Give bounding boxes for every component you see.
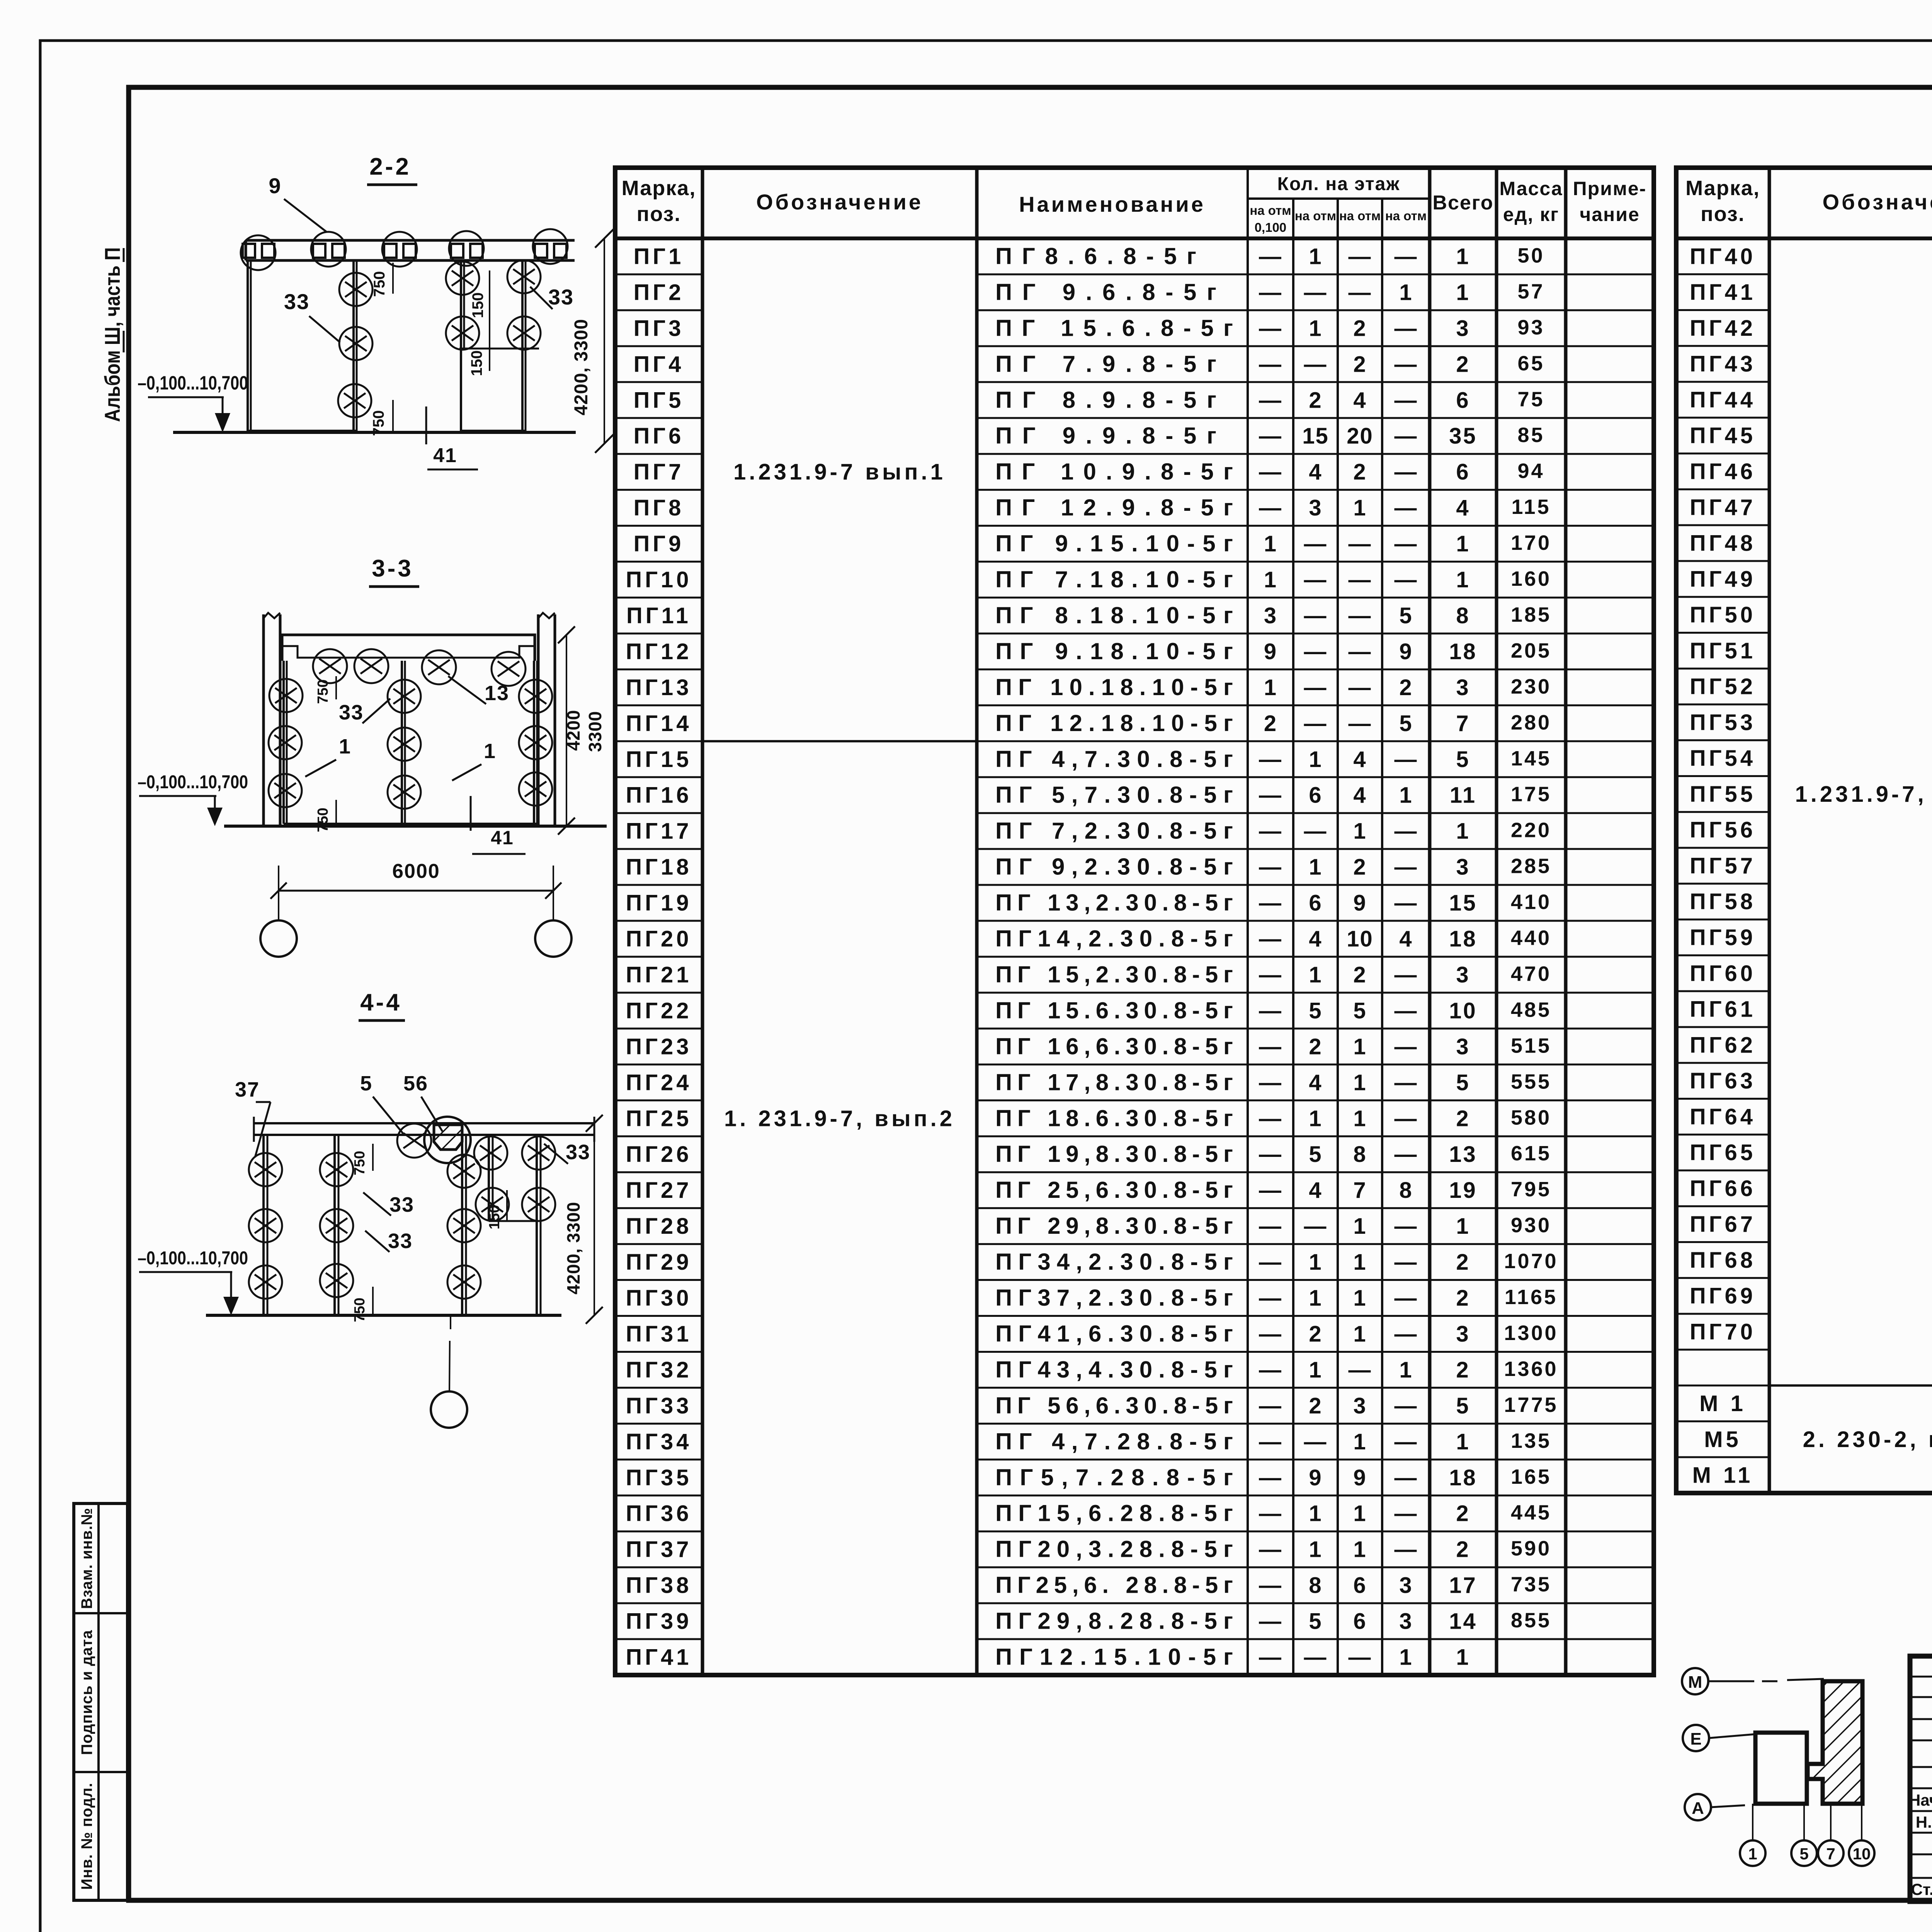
svg-text:ПГ66: ПГ66 [1690,1176,1756,1201]
svg-text:—: — [1395,1250,1418,1275]
svg-text:—: — [1259,1429,1282,1454]
svg-text:3: 3 [1264,603,1277,628]
svg-text:750: 750 [370,410,387,436]
svg-text:ПГ42: ПГ42 [1690,316,1756,341]
svg-text:4: 4 [1456,495,1470,520]
svg-text:1: 1 [1353,1214,1366,1239]
svg-text:ПГ39: ПГ39 [626,1609,692,1634]
svg-text:4: 4 [1309,459,1322,485]
svg-text:ПГ 4,7.30.8-5г: ПГ 4,7.30.8-5г [995,746,1233,772]
svg-text:Инв. № подл.: Инв. № подл. [78,1782,95,1889]
svg-text:—: — [1349,280,1372,305]
svg-text:ПГ5: ПГ5 [634,388,684,413]
svg-text:ПГ54: ПГ54 [1690,746,1756,771]
svg-text:ПГ41: ПГ41 [1690,280,1756,305]
svg-text:М: М [1688,1673,1702,1692]
svg-text:ПГ67: ПГ67 [1690,1212,1756,1237]
svg-text:ПГ62: ПГ62 [1690,1032,1756,1058]
svg-text:ПГ29,8.28.8-5г: ПГ29,8.28.8-5г [995,1608,1233,1634]
svg-text:—: — [1304,280,1327,305]
svg-text:чание: чание [1580,204,1640,225]
svg-text:—: — [1349,711,1372,736]
svg-text:230: 230 [1511,675,1551,698]
svg-text:1: 1 [1264,675,1277,700]
svg-text:М 1: М 1 [1699,1391,1746,1416]
svg-text:М5: М5 [1704,1427,1742,1452]
svg-text:1: 1 [1456,244,1470,269]
svg-text:Масса: Масса [1499,178,1563,199]
svg-text:3: 3 [1309,495,1322,520]
svg-text:2: 2 [1309,1034,1322,1059]
svg-text:ПГ9: ПГ9 [634,531,684,556]
svg-text:ПГ 8.9.8-5г: ПГ 8.9.8-5г [995,387,1216,413]
svg-text:—: — [1395,1321,1418,1347]
svg-text:1: 1 [1264,567,1277,592]
svg-text:—: — [1395,819,1418,844]
svg-text:160: 160 [1511,567,1551,590]
svg-text:13: 13 [1449,1142,1477,1167]
svg-text:185: 185 [1511,603,1551,626]
svg-text:485: 485 [1511,998,1551,1021]
svg-text:—: — [1395,423,1418,449]
svg-text:150: 150 [469,293,486,318]
svg-text:ПГ24: ПГ24 [626,1070,692,1095]
svg-text:5: 5 [1399,603,1412,628]
svg-text:4: 4 [1353,747,1366,772]
svg-text:615: 615 [1511,1142,1551,1165]
svg-text:—: — [1349,531,1372,556]
svg-text:1: 1 [1353,1070,1366,1095]
svg-text:—: — [1304,1429,1327,1454]
svg-text:—: — [1395,1429,1418,1454]
svg-text:2: 2 [1456,1286,1470,1311]
svg-text:—: — [1259,1070,1282,1095]
svg-text:ПГ55: ПГ55 [1690,782,1756,807]
svg-text:—: — [1349,1357,1372,1383]
svg-text:ПГ44: ПГ44 [1690,387,1756,412]
svg-text:ПГ 18.6.30.8-5г: ПГ 18.6.30.8-5г [995,1105,1233,1131]
svg-text:ПГ56: ПГ56 [1690,818,1756,843]
svg-text:1: 1 [1309,1250,1322,1275]
svg-text:—: — [1259,1609,1282,1634]
svg-text:2-2: 2-2 [369,153,411,180]
svg-text:ПГ14,2.30.8-5г: ПГ14,2.30.8-5г [995,926,1233,952]
svg-text:—: — [1304,711,1327,736]
svg-text:—: — [1259,280,1282,305]
svg-text:—: — [1349,603,1372,628]
left table rows [615,273,702,275]
svg-text:—: — [1259,1250,1282,1275]
svg-text:17: 17 [1449,1573,1477,1598]
svg-text:—: — [1395,891,1418,916]
svg-text:ПГ12.15.10-5г: ПГ12.15.10-5г [995,1644,1233,1670]
svg-text:ПГ 7,2.30.8-5г: ПГ 7,2.30.8-5г [995,818,1233,844]
svg-text:—: — [1259,459,1282,485]
svg-text:ПГ 25,6.30.8-5г: ПГ 25,6.30.8-5г [995,1177,1233,1203]
svg-text:93: 93 [1517,316,1544,339]
svg-text:285: 285 [1511,855,1551,878]
svg-text:—: — [1395,1034,1418,1059]
svg-text:4: 4 [1309,1070,1322,1095]
svg-text:ПГ11: ПГ11 [626,603,691,628]
svg-text:ед, кг: ед, кг [1503,204,1559,225]
svg-text:1775: 1775 [1504,1393,1558,1417]
svg-text:ПГ25: ПГ25 [626,1106,692,1131]
svg-text:515: 515 [1511,1034,1551,1057]
svg-text:на отм: на отм [1295,209,1336,223]
svg-text:—: — [1395,1142,1418,1167]
svg-text:440: 440 [1511,927,1551,950]
svg-text:ПГ 17,8.30.8-5г: ПГ 17,8.30.8-5г [995,1069,1233,1095]
svg-text:–0,100...10,700: –0,100...10,700 [138,772,248,793]
svg-text:Приме-: Приме- [1573,178,1647,199]
svg-text:580: 580 [1511,1106,1551,1129]
svg-text:ПГ22: ПГ22 [626,998,692,1023]
svg-text:ПГ18: ПГ18 [626,855,692,880]
right table outer [1676,168,1932,1493]
svg-text:—: — [1259,998,1282,1023]
svg-text:9: 9 [1353,891,1366,916]
svg-text:3: 3 [1456,1034,1470,1059]
svg-text:—: — [1259,855,1282,880]
svg-text:33: 33 [566,1141,590,1164]
svg-text:—: — [1395,567,1418,592]
svg-text:8: 8 [1353,1142,1366,1167]
svg-text:1360: 1360 [1504,1357,1558,1381]
svg-text:145: 145 [1511,747,1551,770]
svg-text:15: 15 [1302,423,1329,449]
svg-text:1: 1 [1353,819,1366,844]
svg-text:—: — [1395,1393,1418,1418]
svg-text:1: 1 [1309,316,1322,341]
svg-text:—: — [1259,783,1282,808]
svg-text:на отм: на отм [1385,209,1427,223]
svg-text:5: 5 [1456,1393,1470,1418]
svg-text:1: 1 [1309,244,1322,269]
svg-text:1: 1 [1399,1357,1412,1383]
svg-text:3-3: 3-3 [372,555,413,582]
svg-text:4: 4 [1353,388,1366,413]
svg-text:4200: 4200 [563,710,583,751]
svg-text:ПГ20: ПГ20 [626,927,692,952]
svg-text:5: 5 [1353,998,1366,1023]
svg-text:ПГ23: ПГ23 [626,1034,692,1059]
svg-text:ПГ8.6.8-5г: ПГ8.6.8-5г [995,243,1196,269]
svg-text:2: 2 [1456,1106,1470,1131]
svg-text:1: 1 [1353,1286,1366,1311]
svg-text:—: — [1259,1465,1282,1490]
svg-text:7: 7 [1826,1845,1835,1863]
svg-text:33: 33 [339,701,364,724]
svg-text:ПГ 15.6.8-5г: ПГ 15.6.8-5г [995,315,1233,341]
svg-text:75: 75 [1517,388,1544,411]
svg-text:ПГ21: ПГ21 [626,962,692,987]
svg-text:1: 1 [484,740,496,763]
svg-text:ПГ59: ПГ59 [1690,925,1756,950]
svg-text:–0,100...10,700: –0,100...10,700 [138,1248,248,1269]
svg-text:135: 135 [1511,1429,1551,1452]
svg-text:6: 6 [1353,1609,1366,1634]
svg-text:5: 5 [1399,711,1412,736]
svg-text:7: 7 [1456,711,1470,736]
svg-text:3300: 3300 [585,711,605,752]
svg-text:5: 5 [1309,1142,1322,1167]
svg-text:Марка,: Марка, [622,177,696,200]
svg-text:ПГ2: ПГ2 [634,280,684,305]
svg-text:ПГ4: ПГ4 [634,352,684,377]
svg-text:ПГ38: ПГ38 [626,1573,692,1598]
svg-text:2: 2 [1353,352,1366,377]
svg-text:33: 33 [548,285,574,309]
svg-text:1: 1 [1456,1214,1470,1239]
svg-text:4200, 3300: 4200, 3300 [571,319,592,415]
svg-text:94: 94 [1517,459,1544,483]
svg-text:ПГ51: ПГ51 [1690,638,1756,663]
svg-text:—: — [1349,639,1372,664]
svg-text:1: 1 [1309,747,1322,772]
svg-text:6: 6 [1456,388,1470,413]
svg-text:ПГ43: ПГ43 [1690,352,1756,377]
right table rows [1676,273,1769,275]
svg-text:735: 735 [1511,1573,1551,1596]
svg-text:ПГ 9,2.30.8-5г: ПГ 9,2.30.8-5г [995,854,1233,880]
svg-text:1.231.9-7, вып.2: 1.231.9-7, вып.2 [1795,782,1932,807]
svg-text:19: 19 [1449,1178,1477,1203]
svg-text:1070: 1070 [1504,1250,1558,1273]
svg-text:6: 6 [1309,891,1322,916]
svg-text:—: — [1395,244,1418,269]
svg-text:ПГ29: ПГ29 [626,1250,692,1275]
svg-text:—: — [1259,1501,1282,1526]
svg-text:—: — [1259,244,1282,269]
svg-text:ПГ61: ПГ61 [1690,997,1756,1022]
svg-text:1300: 1300 [1504,1321,1558,1345]
svg-text:1165: 1165 [1505,1286,1558,1309]
svg-text:750: 750 [352,1151,368,1175]
svg-text:4: 4 [1309,1178,1322,1203]
svg-text:470: 470 [1511,962,1551,985]
svg-text:—: — [1349,1645,1372,1670]
svg-text:—: — [1395,747,1418,772]
svg-text:—: — [1259,1321,1282,1347]
svg-text:1: 1 [1399,783,1412,808]
svg-text:ПГ 7.9.8-5г: ПГ 7.9.8-5г [995,351,1216,377]
svg-text:1: 1 [1353,1106,1366,1131]
left table outer [615,168,1654,1675]
svg-text:ПГ35: ПГ35 [626,1465,692,1490]
svg-text:—: — [1304,1214,1327,1239]
svg-text:ПГ12: ПГ12 [626,639,692,664]
svg-text:—: — [1304,352,1327,377]
svg-text:1: 1 [1353,1537,1366,1562]
svg-text:ПГ 10.18.10-5г: ПГ 10.18.10-5г [995,674,1233,700]
svg-text:—: — [1395,1214,1418,1239]
svg-text:1. 231.9-7, вып.2: 1. 231.9-7, вып.2 [724,1106,955,1131]
svg-text:ПГ30: ПГ30 [626,1286,692,1311]
svg-text:ПГ53: ПГ53 [1690,710,1756,735]
svg-text:ПГ43,4.30.8-5г: ПГ43,4.30.8-5г [995,1357,1233,1383]
svg-text:2: 2 [1456,1501,1470,1526]
svg-text:4200, 3300: 4200, 3300 [563,1202,583,1294]
svg-text:ПГ32: ПГ32 [626,1357,692,1383]
svg-text:—: — [1259,388,1282,413]
svg-text:Н.контр.: Н.контр. [1916,1813,1932,1831]
svg-text:ПГ26: ПГ26 [626,1142,692,1167]
svg-text:—: — [1395,1465,1418,1490]
svg-text:855: 855 [1511,1609,1551,1632]
svg-text:6000: 6000 [392,860,440,883]
svg-text:2: 2 [1353,316,1366,341]
svg-text:13: 13 [485,682,509,705]
svg-text:—: — [1259,1214,1282,1239]
svg-text:20: 20 [1347,423,1373,449]
svg-text:ПГ37,2.30.8-5г: ПГ37,2.30.8-5г [995,1285,1233,1311]
svg-text:2: 2 [1456,1250,1470,1275]
svg-text:ПГ 13,2.30.8-5г: ПГ 13,2.30.8-5г [995,890,1233,916]
svg-text:3: 3 [1456,855,1470,880]
svg-text:6: 6 [1456,459,1470,485]
svg-text:2: 2 [1456,1357,1470,1383]
svg-text:5: 5 [1456,1070,1470,1095]
svg-text:—: — [1395,998,1418,1023]
svg-text:ПГ65: ПГ65 [1690,1140,1756,1165]
svg-text:2: 2 [1456,1537,1470,1562]
svg-text:2: 2 [1353,962,1366,987]
svg-text:930: 930 [1511,1214,1551,1237]
svg-text:1: 1 [1353,495,1366,520]
svg-text:ПГ13: ПГ13 [626,675,692,700]
svg-text:ПГ63: ПГ63 [1690,1068,1756,1094]
svg-text:—: — [1259,891,1282,916]
svg-text:11: 11 [1450,783,1476,808]
svg-text:—: — [1259,1645,1282,1670]
svg-text:6: 6 [1353,1573,1366,1598]
svg-text:ПГ 7.18.10-5г: ПГ 7.18.10-5г [995,566,1233,592]
svg-text:—: — [1259,1142,1282,1167]
svg-text:8: 8 [1456,603,1470,628]
svg-text:3: 3 [1399,1573,1412,1598]
svg-text:115: 115 [1511,495,1551,519]
svg-text:на отм: на отм [1250,203,1291,218]
svg-text:—: — [1304,603,1327,628]
svg-text:ПГ48: ПГ48 [1690,531,1756,556]
svg-text:ПГ37: ПГ37 [626,1537,692,1562]
svg-text:1: 1 [1309,1286,1322,1311]
svg-text:750: 750 [371,271,388,297]
svg-text:9: 9 [269,173,281,198]
svg-text:18: 18 [1449,639,1477,664]
svg-text:1.231.9-7 вып.1: 1.231.9-7 вып.1 [733,459,946,485]
svg-text:1: 1 [1353,1250,1366,1275]
svg-text:18: 18 [1449,1465,1477,1490]
svg-text:Кол. на этаж: Кол. на этаж [1277,174,1400,194]
svg-text:Обозначение: Обозначение [756,190,923,214]
svg-text:ПГ 4,7.28.8-5г: ПГ 4,7.28.8-5г [995,1429,1233,1454]
svg-text:85: 85 [1517,423,1544,447]
svg-text:ПГ47: ПГ47 [1690,495,1756,520]
svg-text:2: 2 [1309,388,1322,413]
svg-text:ПГ14: ПГ14 [626,711,692,736]
svg-text:—: — [1349,567,1372,592]
svg-text:ПГ46: ПГ46 [1690,459,1756,484]
svg-text:Е: Е [1690,1730,1701,1748]
svg-text:ПГ40: ПГ40 [1690,244,1756,269]
svg-text:555: 555 [1511,1070,1551,1093]
svg-text:—: — [1395,459,1418,485]
svg-text:1: 1 [1456,819,1470,844]
svg-text:ПГ10: ПГ10 [626,567,692,592]
svg-text:ПГ57: ПГ57 [1690,853,1756,878]
svg-text:33: 33 [388,1230,413,1253]
svg-text:5: 5 [1456,747,1470,772]
svg-text:А: А [1692,1799,1704,1818]
svg-text:М 11: М 11 [1692,1463,1753,1488]
svg-text:57: 57 [1517,280,1544,303]
svg-text:—: — [1259,352,1282,377]
svg-text:33: 33 [389,1193,414,1216]
svg-text:1: 1 [1353,1429,1366,1454]
svg-text:ПГ 16,6.30.8-5г: ПГ 16,6.30.8-5г [995,1033,1233,1059]
svg-text:ПГ68: ПГ68 [1690,1248,1756,1273]
svg-text:Ст. Архит: Ст. Архит [1911,1880,1932,1898]
svg-text:2: 2 [1353,459,1366,485]
svg-text:1: 1 [1309,1537,1322,1562]
svg-text:—: — [1259,423,1282,449]
svg-text:–0,100...10,700: –0,100...10,700 [138,372,248,394]
svg-text:ПГ 15,2.30.8-5г: ПГ 15,2.30.8-5г [995,961,1233,987]
svg-text:ПГ1: ПГ1 [634,244,684,269]
svg-text:ПГ 12.18.10-5г: ПГ 12.18.10-5г [995,710,1233,736]
svg-text:ПГ15: ПГ15 [626,747,692,772]
svg-text:ПГ19: ПГ19 [626,891,692,916]
svg-text:ПГ3: ПГ3 [634,316,684,341]
svg-text:5: 5 [360,1072,372,1095]
svg-text:175: 175 [1511,783,1551,806]
svg-text:4: 4 [1399,927,1412,952]
svg-text:ПГ16: ПГ16 [626,783,692,808]
svg-text:ПГ58: ПГ58 [1690,889,1756,914]
svg-text:4-4: 4-4 [360,989,402,1016]
svg-text:—: — [1395,316,1418,341]
svg-text:ПГ69: ПГ69 [1690,1284,1756,1309]
svg-text:9: 9 [1399,639,1412,664]
svg-text:—: — [1259,1357,1282,1383]
svg-text:ПГ70: ПГ70 [1690,1319,1756,1344]
svg-text:ПГ27: ПГ27 [626,1178,692,1203]
svg-text:18: 18 [1449,927,1477,952]
svg-text:2: 2 [1309,1321,1322,1347]
svg-text:5: 5 [1309,1609,1322,1634]
svg-text:445: 445 [1511,1501,1551,1524]
svg-text:ПГ45: ПГ45 [1690,423,1756,448]
svg-text:—: — [1304,819,1327,844]
svg-text:—: — [1304,675,1327,700]
svg-text:33: 33 [284,289,310,314]
svg-text:ПГ 9.6.8-5г: ПГ 9.6.8-5г [995,279,1216,305]
svg-text:15: 15 [1449,891,1477,916]
svg-text:3: 3 [1353,1393,1366,1418]
svg-text:поз.: поз. [637,202,681,226]
svg-text:41: 41 [433,444,457,467]
left stamp strip [74,1503,128,1900]
svg-text:220: 220 [1511,819,1551,842]
svg-text:—: — [1259,1034,1282,1059]
svg-text:—: — [1259,316,1282,341]
svg-text:4: 4 [1353,783,1366,808]
svg-text:ПГ33: ПГ33 [626,1393,692,1418]
svg-text:2. 230-2, вып.3: 2. 230-2, вып.3 [1803,1427,1932,1452]
svg-text:ПГ 12.9.8-5г: ПГ 12.9.8-5г [995,495,1233,520]
